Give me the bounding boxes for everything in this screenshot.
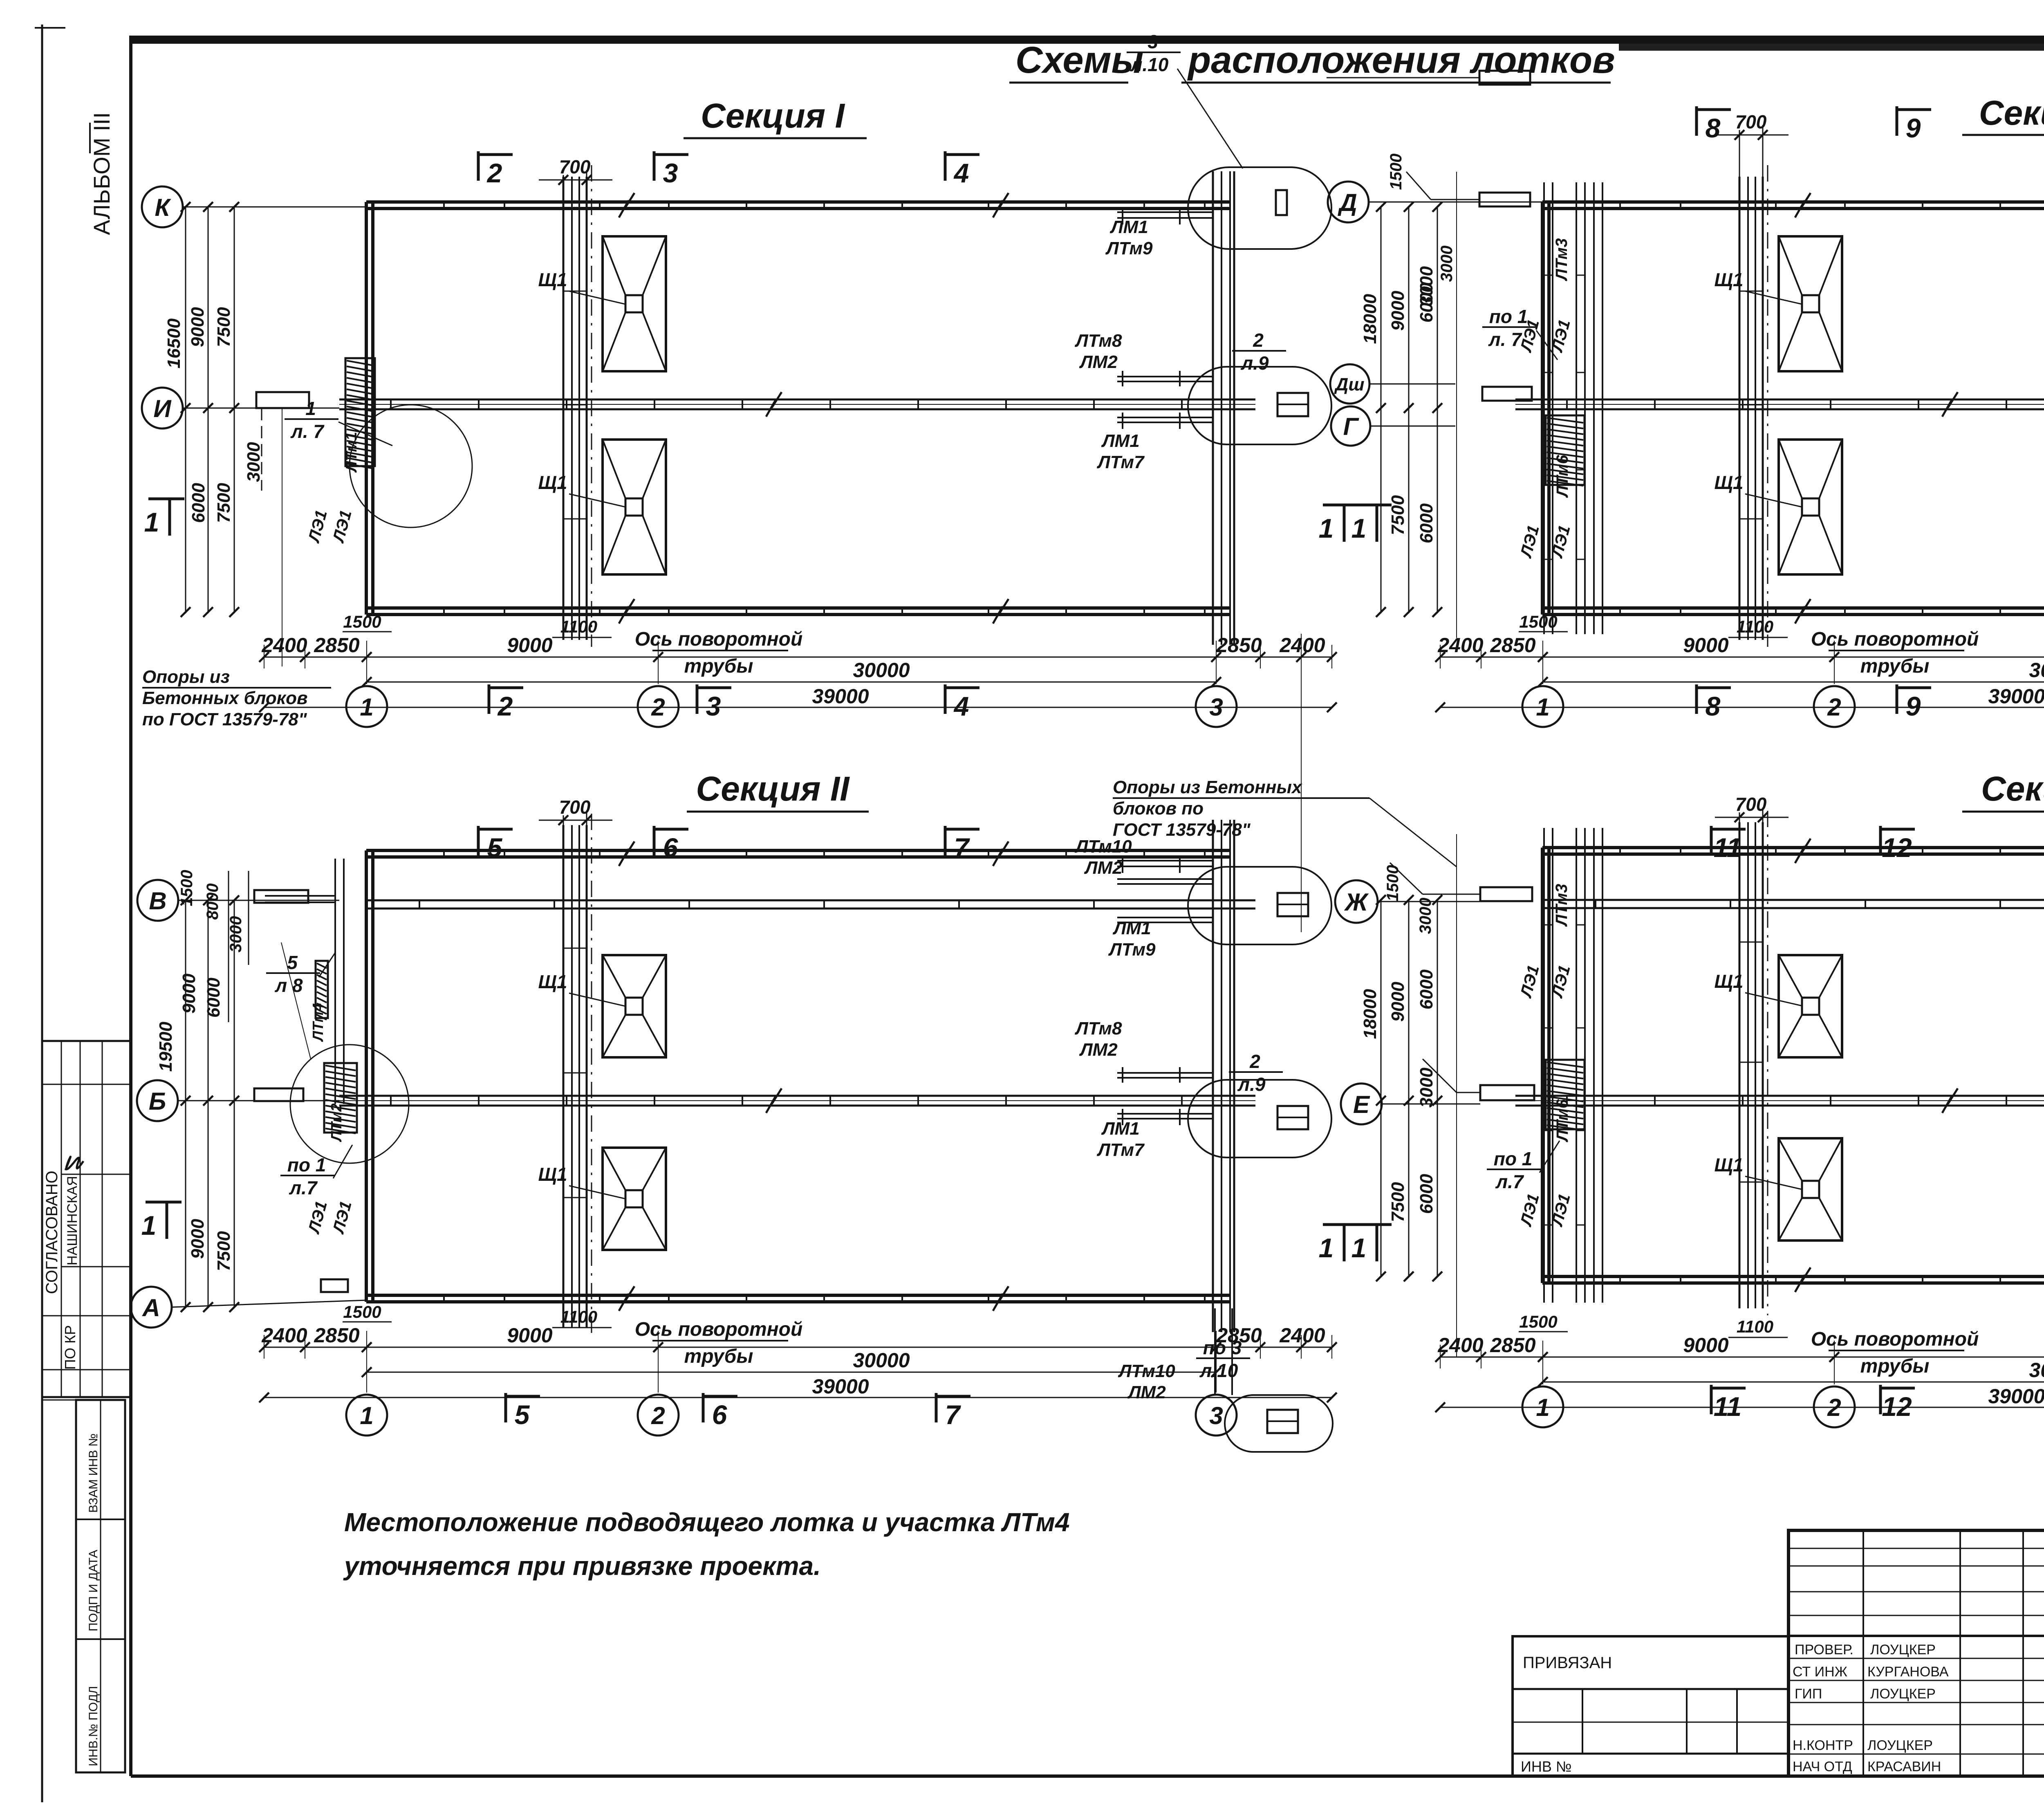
svg-text:ЛМ1: ЛМ1: [1109, 217, 1148, 237]
svg-text:3000: 3000: [1416, 1068, 1437, 1108]
svg-text:2: 2: [1253, 330, 1264, 351]
svg-text:ЛТм3: ЛТм3: [1553, 238, 1571, 282]
svg-text:1500: 1500: [1384, 865, 1402, 902]
svg-text:Щ1: Щ1: [538, 269, 567, 290]
svg-text:7500: 7500: [214, 1231, 234, 1271]
svg-text:л.7: л.7: [1495, 1171, 1524, 1192]
svg-text:по 1: по 1: [287, 1154, 326, 1175]
svg-text:Дш: Дш: [1334, 375, 1365, 395]
svg-text:ЛТм7: ЛТм7: [1096, 452, 1145, 472]
svg-text:700: 700: [1735, 111, 1767, 132]
svg-text:3000: 3000: [1416, 266, 1437, 306]
svg-text:7: 7: [954, 832, 970, 863]
svg-text:1100: 1100: [1737, 617, 1773, 636]
svg-text:700: 700: [1735, 794, 1767, 815]
svg-text:8000: 8000: [204, 884, 222, 920]
svg-text:6: 6: [663, 832, 679, 863]
svg-text:3: 3: [663, 158, 678, 188]
svg-text:9: 9: [1906, 691, 1921, 721]
svg-text:9000: 9000: [188, 307, 208, 347]
svg-text:3: 3: [1209, 693, 1223, 721]
svg-text:12: 12: [1882, 1391, 1912, 1422]
svg-text:19500: 19500: [156, 1021, 176, 1072]
svg-text:9000: 9000: [1683, 634, 1728, 657]
svg-text:ГОСТ 13579-78": ГОСТ 13579-78": [1113, 820, 1251, 840]
svg-text:5: 5: [515, 1400, 530, 1430]
svg-text:39000: 39000: [812, 1375, 869, 1398]
svg-text:л.9: л.9: [1237, 1074, 1266, 1095]
svg-text:3000: 3000: [1438, 246, 1456, 282]
svg-text:1500: 1500: [343, 1302, 381, 1321]
svg-text:2: 2: [497, 691, 513, 721]
svg-text:ЛМ1: ЛМ1: [1101, 1119, 1139, 1139]
svg-text:ЛМ2: ЛМ2: [1084, 858, 1123, 878]
svg-text:2: 2: [486, 158, 502, 188]
svg-text:В: В: [149, 887, 166, 915]
svg-text:ЛМ1: ЛМ1: [1112, 918, 1151, 938]
svg-text:3000: 3000: [1416, 898, 1434, 934]
svg-text:ЛТм7: ЛТм7: [1096, 1140, 1145, 1160]
svg-text:ЛТм3: ЛТм3: [1553, 884, 1571, 927]
svg-text:9: 9: [1906, 113, 1921, 143]
svg-text:ЛМ2: ЛМ2: [1079, 1040, 1118, 1060]
svg-text:2400: 2400: [1437, 634, 1483, 657]
svg-text:6000: 6000: [204, 978, 224, 1018]
svg-text:ПО КР: ПО КР: [62, 1325, 78, 1370]
svg-text:1500: 1500: [343, 612, 381, 631]
svg-text:Опоры из Бетонных: Опоры из Бетонных: [1113, 777, 1302, 797]
svg-text:Б: Б: [149, 1088, 166, 1115]
svg-text:4: 4: [953, 691, 969, 721]
svg-text:ИНВ №: ИНВ №: [1521, 1758, 1572, 1775]
svg-text:1100: 1100: [560, 617, 597, 636]
svg-text:6000: 6000: [188, 483, 208, 523]
svg-text:Ось поворотной: Ось поворотной: [1811, 628, 1979, 650]
svg-text:39000: 39000: [1988, 1385, 2044, 1408]
svg-text:ВЗАМ ИНВ №: ВЗАМ ИНВ №: [87, 1433, 100, 1513]
svg-text:2850: 2850: [314, 1324, 359, 1347]
svg-text:Секция II: Секция II: [696, 769, 850, 808]
svg-text:по 1: по 1: [1489, 306, 1528, 327]
svg-text:3000: 3000: [227, 916, 245, 953]
svg-text:ПРИВЯЗАН: ПРИВЯЗАН: [1523, 1654, 1612, 1672]
svg-text:1: 1: [1319, 1233, 1334, 1263]
svg-text:по ГОСТ 13579-78": по ГОСТ 13579-78": [142, 709, 307, 729]
svg-text:700: 700: [559, 156, 591, 177]
svg-text:1: 1: [1351, 513, 1367, 543]
svg-text:2850: 2850: [314, 634, 359, 657]
svg-text:3: 3: [1209, 1402, 1223, 1429]
svg-text:л.9: л.9: [1241, 352, 1269, 374]
svg-text:Д: Д: [1337, 189, 1357, 216]
svg-text:Щ1: Щ1: [1714, 971, 1743, 992]
svg-text:Бетонных блоков: Бетонных блоков: [142, 688, 308, 708]
svg-text:2: 2: [1249, 1051, 1260, 1072]
svg-text:7500: 7500: [214, 307, 234, 347]
svg-text:ПОДП И ДАТА: ПОДП И ДАТА: [87, 1550, 100, 1631]
svg-text:ЛТм8: ЛТм8: [1074, 331, 1122, 351]
svg-text:2850: 2850: [1216, 1324, 1262, 1347]
svg-text:6000: 6000: [1416, 1174, 1437, 1214]
svg-text:3: 3: [1148, 31, 1158, 52]
svg-text:9000: 9000: [1388, 291, 1408, 331]
svg-text:7500: 7500: [1388, 495, 1408, 535]
svg-text:по 1: по 1: [1494, 1148, 1533, 1169]
svg-text:9000: 9000: [507, 634, 552, 657]
svg-text:ЛТм10: ЛТм10: [1118, 1361, 1175, 1381]
svg-text:39000: 39000: [1988, 685, 2044, 708]
svg-text:ЛТм9: ЛТм9: [1108, 940, 1156, 960]
svg-text:ИНВ.№ ПОДЛ: ИНВ.№ ПОДЛ: [87, 1686, 100, 1766]
svg-text:ЛТм6: ЛТм6: [1553, 455, 1571, 498]
svg-text:Щ1: Щ1: [1714, 269, 1743, 290]
svg-text:12: 12: [1882, 832, 1912, 863]
svg-text:30000: 30000: [853, 659, 910, 682]
svg-text:2400: 2400: [261, 1324, 307, 1347]
svg-text:11: 11: [1714, 1391, 1742, 1422]
svg-text:1: 1: [144, 507, 159, 537]
svg-text:Щ1: Щ1: [1714, 472, 1743, 493]
svg-text:1: 1: [360, 1402, 373, 1429]
svg-text:30000: 30000: [2029, 1359, 2044, 1382]
svg-text:КРАСАВИН: КРАСАВИН: [1867, 1759, 1941, 1774]
svg-text:1: 1: [1536, 1394, 1549, 1421]
svg-text:И: И: [153, 395, 172, 422]
svg-text:6000: 6000: [1416, 503, 1437, 543]
svg-text:3: 3: [706, 691, 721, 721]
svg-text:4: 4: [953, 158, 969, 188]
svg-text:18000: 18000: [1360, 294, 1380, 344]
svg-text:9000: 9000: [507, 1324, 552, 1347]
svg-text:1: 1: [1536, 693, 1549, 721]
svg-text:8: 8: [1706, 691, 1721, 721]
svg-text:уточняется при привязке про: уточняется при привязке проекта.: [343, 1551, 821, 1581]
svg-text:ЛТм9: ЛТм9: [1105, 238, 1153, 258]
svg-text:ЛТм2: ЛТм2: [328, 1104, 345, 1142]
svg-text:9000: 9000: [188, 1219, 208, 1259]
svg-text:8: 8: [1706, 113, 1721, 143]
svg-text:2850: 2850: [1490, 1334, 1535, 1357]
svg-text:ЛТм8: ЛТм8: [1074, 1018, 1122, 1039]
svg-text:НАШИНСКАЯ: НАШИНСКАЯ: [65, 1176, 80, 1265]
svg-text:9000: 9000: [1388, 982, 1408, 1022]
svg-text:Секция I: Секция I: [701, 96, 845, 135]
svg-text:л. 7: л. 7: [1488, 329, 1522, 350]
svg-text:Ось поворотной: Ось поворотной: [635, 628, 803, 650]
svg-text:Е: Е: [1353, 1091, 1370, 1118]
svg-text:18000: 18000: [1360, 989, 1380, 1039]
svg-text:1500: 1500: [1387, 154, 1405, 190]
svg-text:блоков по: блоков по: [1113, 799, 1204, 819]
svg-text:ЛМ1: ЛМ1: [1101, 431, 1139, 451]
svg-text:16500: 16500: [164, 318, 184, 368]
svg-text:л 8: л 8: [275, 975, 303, 996]
svg-text:СОГЛАСОВАНО: СОГЛАСОВАНО: [43, 1171, 61, 1294]
svg-text:трубы: трубы: [684, 655, 753, 677]
svg-text:7500: 7500: [1388, 1182, 1408, 1222]
svg-text:1500: 1500: [1519, 1312, 1557, 1331]
svg-text:1: 1: [1319, 513, 1334, 543]
svg-text:Г: Г: [1343, 413, 1360, 440]
svg-text:ЛМ2: ЛМ2: [1127, 1382, 1166, 1402]
svg-text:30000: 30000: [853, 1349, 910, 1372]
svg-text:ПРОВЕР.: ПРОВЕР.: [1795, 1642, 1853, 1658]
svg-text:л. 7: л. 7: [290, 421, 325, 442]
svg-text:1: 1: [141, 1210, 157, 1240]
svg-text:Опоры из: Опоры из: [142, 667, 230, 687]
svg-text:Секция IV: Секция IV: [1981, 769, 2044, 808]
svg-text:1100: 1100: [1737, 1317, 1773, 1336]
svg-text:7500: 7500: [214, 483, 234, 523]
svg-text:1: 1: [305, 398, 316, 419]
svg-text:ЛОУЦКЕР: ЛОУЦКЕР: [1870, 1642, 1936, 1658]
svg-text:1500: 1500: [1519, 612, 1557, 631]
svg-text:трубы: трубы: [1860, 655, 1930, 677]
svg-text:Ось поворотной: Ось поворотной: [635, 1319, 803, 1340]
svg-text:1100: 1100: [560, 1307, 597, 1326]
svg-text:9000: 9000: [1683, 1334, 1728, 1357]
svg-text:КУРГАНОВА: КУРГАНОВА: [1867, 1664, 1949, 1680]
svg-text:2850: 2850: [1490, 634, 1535, 657]
svg-text:Ж: Ж: [1344, 888, 1369, 916]
svg-text:ЛОУЦКЕР: ЛОУЦКЕР: [1870, 1686, 1936, 1702]
svg-text:2: 2: [651, 693, 665, 721]
svg-text:ЛТм6: ЛТм6: [1553, 1099, 1571, 1143]
svg-text:СТ ИНЖ: СТ ИНЖ: [1793, 1664, 1847, 1680]
svg-text:ЛМ2: ЛМ2: [1079, 352, 1118, 372]
svg-text:Щ1: Щ1: [538, 472, 567, 493]
svg-text:Схемы: Схемы: [1015, 39, 1143, 81]
svg-text:1: 1: [360, 693, 373, 721]
svg-text:Щ1: Щ1: [1714, 1154, 1743, 1175]
svg-text:ЛОУЦКЕР: ЛОУЦКЕР: [1867, 1738, 1933, 1753]
svg-text:5: 5: [287, 952, 298, 973]
svg-text:К: К: [155, 194, 172, 221]
svg-text:2: 2: [1827, 693, 1841, 721]
svg-text:Местоположение подводящего л: Местоположение подводящего лотка и участ…: [344, 1507, 1070, 1537]
svg-text:ГИП: ГИП: [1795, 1686, 1822, 1702]
svg-text:11: 11: [1714, 832, 1742, 863]
svg-text:2: 2: [1827, 1394, 1841, 1421]
svg-text:расположения лотков: расположения лотков: [1187, 39, 1615, 81]
svg-text:ЛТм4: ЛТм4: [309, 1003, 326, 1042]
svg-text:5: 5: [487, 832, 503, 863]
svg-text:7: 7: [945, 1400, 961, 1430]
svg-text:л.10: л.10: [1130, 54, 1169, 75]
svg-text:700: 700: [559, 796, 591, 818]
svg-text:1: 1: [1351, 1233, 1367, 1263]
svg-text:3000: 3000: [244, 442, 264, 482]
svg-text:9000: 9000: [179, 974, 199, 1014]
svg-text:трубы: трубы: [684, 1346, 753, 1367]
svg-text:НАЧ ОТД: НАЧ ОТД: [1793, 1759, 1852, 1774]
svg-text:2400: 2400: [1437, 1334, 1483, 1357]
svg-text:6000: 6000: [1416, 969, 1437, 1009]
svg-text:1500: 1500: [178, 870, 196, 906]
svg-text:Н.КОНТР: Н.КОНТР: [1793, 1738, 1853, 1753]
svg-text:2400: 2400: [1279, 634, 1325, 657]
svg-text:Ось поворотной: Ось поворотной: [1811, 1328, 1979, 1350]
svg-text:2850: 2850: [1216, 634, 1262, 657]
svg-text:6: 6: [712, 1400, 728, 1430]
svg-text:2: 2: [651, 1402, 665, 1429]
svg-text:Секция III: Секция III: [1979, 94, 2044, 132]
svg-text:30000: 30000: [2029, 659, 2044, 682]
svg-text:Щ1: Щ1: [538, 1164, 567, 1185]
svg-text:2400: 2400: [261, 634, 307, 657]
svg-text:39000: 39000: [812, 685, 869, 708]
svg-text:А: А: [141, 1294, 160, 1321]
svg-text:Щ1: Щ1: [538, 971, 567, 992]
svg-text:2400: 2400: [1279, 1324, 1325, 1347]
svg-text:л.7: л.7: [289, 1177, 318, 1198]
svg-text:трубы: трубы: [1860, 1355, 1930, 1377]
svg-text:АЛЬБОМ III: АЛЬБОМ III: [89, 112, 114, 235]
